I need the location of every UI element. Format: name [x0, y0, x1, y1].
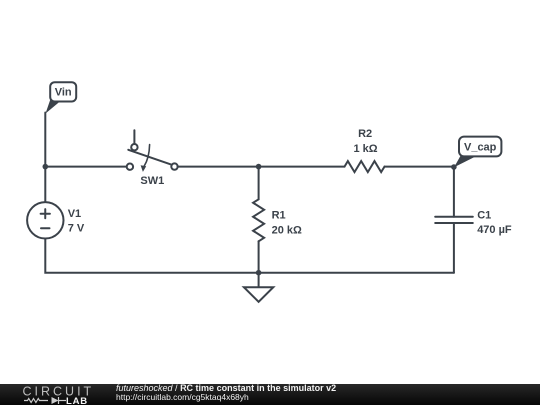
junction node B	[256, 164, 262, 170]
ground	[244, 273, 273, 302]
svg-text:20 kΩ: 20 kΩ	[272, 224, 302, 236]
net label V_cap	[454, 137, 501, 168]
net label Vin	[46, 82, 77, 113]
capacitor C1	[435, 167, 473, 273]
wire node A to V1 top	[44, 167, 46, 203]
junction node A	[43, 164, 49, 170]
svg-text:R1: R1	[272, 209, 286, 221]
svg-text:SW1: SW1	[140, 175, 164, 187]
wire R2 to node V_cap	[385, 166, 454, 168]
wire SW1 right terminal to R2	[178, 166, 345, 168]
svg-text:C1: C1	[477, 210, 491, 222]
CircuitLab logo	[22, 385, 98, 405]
junction node ground	[256, 270, 262, 276]
resistor R1	[253, 167, 264, 273]
svg-text:7 V: 7 V	[68, 223, 85, 235]
junction node V_cap	[451, 164, 457, 170]
wire bottom rail	[45, 239, 454, 273]
switch SW1	[127, 130, 178, 172]
wire node A to SW1 left terminal	[45, 166, 126, 168]
svg-text:470 µF: 470 µF	[477, 224, 512, 236]
svg-text:1 kΩ: 1 kΩ	[353, 143, 377, 155]
svg-text:Vin: Vin	[55, 87, 72, 99]
voltage source V1	[27, 202, 63, 238]
svg-text:V1: V1	[68, 208, 81, 220]
svg-text:V_cap: V_cap	[464, 142, 497, 154]
resistor R2	[345, 161, 385, 172]
svg-text:R2: R2	[358, 128, 372, 140]
svg-text:LAB: LAB	[66, 396, 88, 405]
wire Vin stub down to node A	[44, 113, 46, 167]
